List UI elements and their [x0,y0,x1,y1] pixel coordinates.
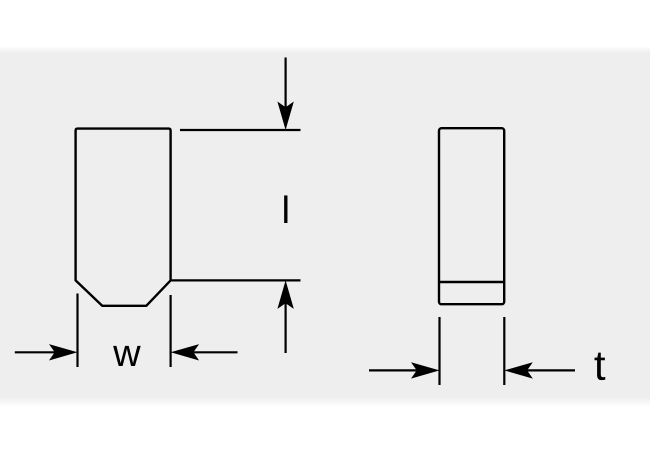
label l [284,195,287,223]
gray drawing band background [0,46,650,407]
t dimension left arrow (pointing right) [369,362,440,378]
t dimension right arrow (pointing left) [504,362,575,378]
w dimension right arrow (pointing left) [171,344,238,360]
extension line, left of w dimension [76,294,78,368]
label t [595,353,606,380]
key side view bottom chamfer line [439,281,504,283]
extension line, top of l dimension [180,129,301,131]
extension line, right of t dimension [503,317,505,385]
label w [113,346,141,366]
extension line, left of t dimension [438,317,440,385]
l dimension upper arrow (pointing down) [277,58,293,131]
key side view rectangle (right shape) [439,128,504,304]
l dimension lower arrow (pointing up) [277,280,293,353]
extension line, right of w dimension [170,295,172,367]
w dimension left arrow (pointing right) [15,344,78,360]
extension line, bottom of l dimension [172,279,301,281]
key front view outline (left shape) [76,129,171,306]
